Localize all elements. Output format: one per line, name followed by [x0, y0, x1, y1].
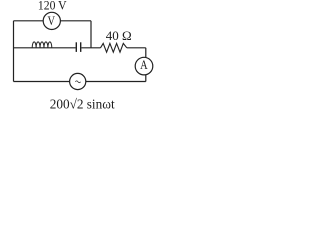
wire middle branch left segment (runs under coil to capacitor): [14, 47, 76, 49]
svg-text:V: V: [48, 14, 56, 28]
wire bottom right segment: [86, 81, 146, 83]
wire resistor to right corner: [127, 47, 146, 49]
wire right vertical down to ammeter: [145, 48, 147, 58]
resistor R 40ohm zigzag: [101, 43, 127, 52]
wire left vertical: [13, 21, 15, 82]
svg-text:200√2 sinωt: 200√2 sinωt: [50, 97, 115, 112]
wire bottom left segment: [14, 81, 70, 83]
capacitor C right plate: [80, 42, 82, 52]
wire vertical from top corner down to middle branch node: [90, 21, 92, 48]
wire top left to voltmeter: [14, 20, 44, 22]
wire ammeter to bottom corner: [145, 75, 147, 82]
AC source circle: [70, 73, 86, 89]
svg-text:A: A: [140, 58, 148, 72]
ammeter A circle: [135, 57, 153, 75]
svg-text:120 V: 120 V: [38, 0, 67, 13]
capacitor C left plate: [75, 42, 77, 52]
inductor L coil: [32, 42, 52, 48]
wire voltmeter to top-right corner: [60, 20, 91, 22]
AC source sine tilde: [75, 81, 80, 83]
svg-text:40 Ω: 40 Ω: [106, 28, 132, 43]
voltmeter V circle: [43, 12, 60, 29]
wire capacitor to resistor (through node at x=91): [81, 47, 100, 49]
